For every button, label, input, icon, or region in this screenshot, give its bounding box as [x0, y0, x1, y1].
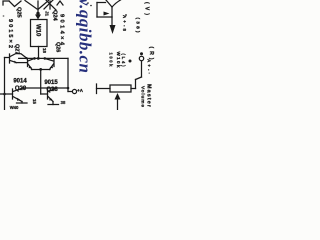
svg-text:A+-8: A+-8 [122, 15, 127, 32]
svg-text:(V): (V) [144, 2, 150, 15]
svg-text:(38): (38) [135, 18, 141, 33]
svg-text:Q27: Q27 [14, 44, 20, 54]
svg-text:38: 38 [61, 100, 66, 105]
svg-text:Q28: Q28 [46, 87, 58, 93]
svg-text:Q26: Q26 [55, 42, 61, 52]
svg-text:w.qqibb.cn: w.qqibb.cn [76, 0, 95, 73]
svg-text:W10: W10 [34, 24, 40, 37]
svg-text:9015×2: 9015×2 [7, 19, 13, 48]
svg-text:J1: J1 [45, 11, 50, 17]
svg-text:15: 15 [32, 99, 37, 104]
svg-text:(R): (R) [148, 47, 154, 60]
svg-text:Master: Master [146, 84, 152, 108]
svg-text:+A: +A [77, 88, 84, 93]
svg-text:9015: 9015 [44, 80, 58, 86]
svg-text:18: 18 [42, 48, 47, 53]
svg-text:Q24: Q24 [52, 10, 58, 21]
svg-text:Volume: Volume [140, 86, 146, 107]
svg-text:100k: 100k [109, 53, 114, 68]
svg-text:9014: 9014 [13, 78, 27, 84]
svg-text:W10k: W10k [116, 52, 121, 68]
svg-text:Q29: Q29 [15, 86, 27, 92]
svg-text:Q25: Q25 [16, 7, 22, 18]
svg-text:W40: W40 [10, 105, 19, 110]
svg-text:A+-·: A+-· [147, 59, 152, 74]
